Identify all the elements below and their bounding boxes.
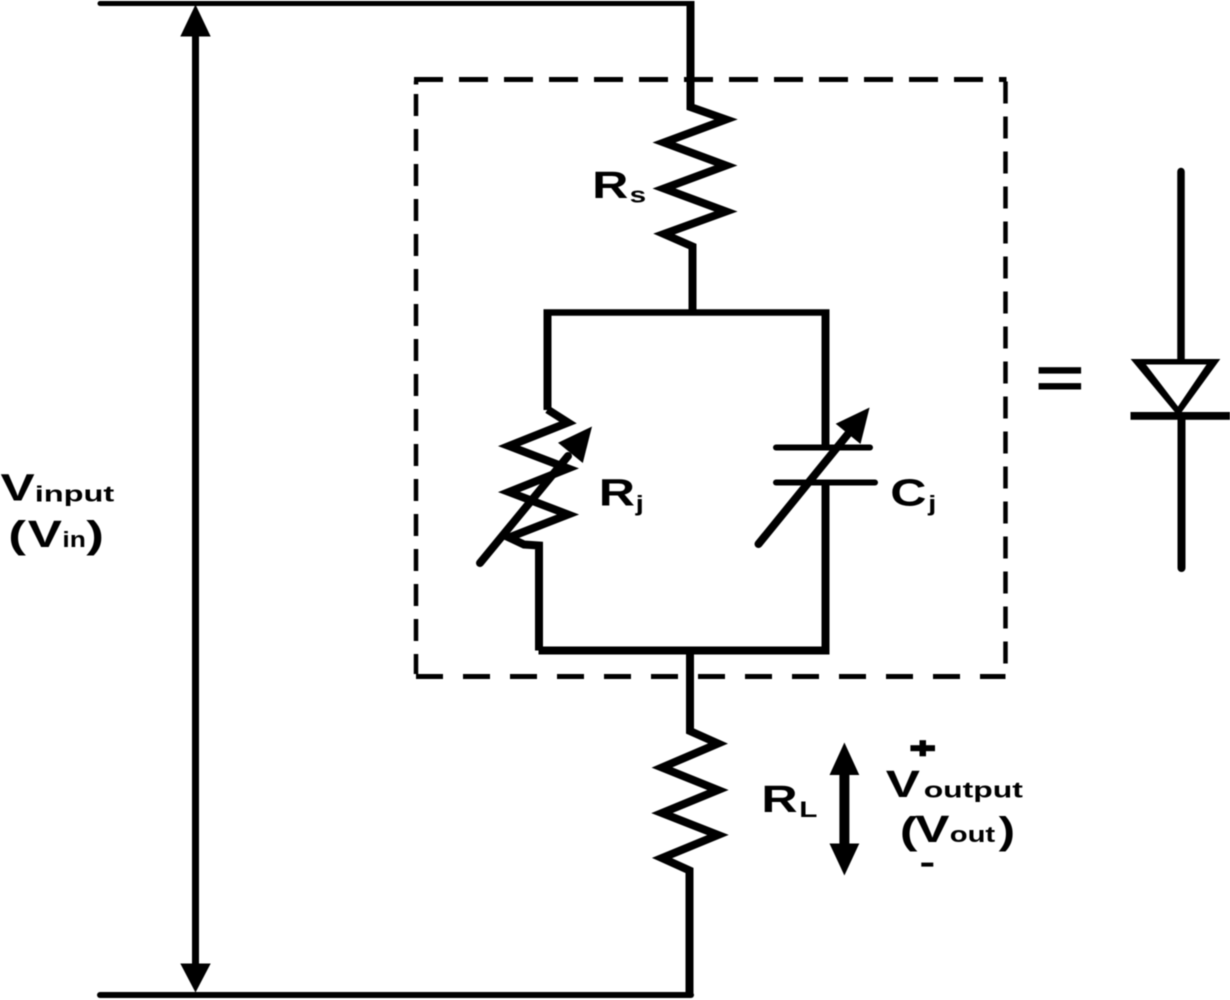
svg-text:input: input xyxy=(35,482,114,507)
svg-text:V: V xyxy=(28,512,62,555)
svg-text:): ) xyxy=(999,810,1015,852)
svg-text:s: s xyxy=(630,182,647,207)
svg-text:out: out xyxy=(950,824,996,848)
svg-text:V: V xyxy=(915,808,949,851)
svg-text:L: L xyxy=(799,797,817,822)
svg-text:C: C xyxy=(890,472,926,514)
svg-text:(: ( xyxy=(8,513,26,556)
svg-text:R: R xyxy=(599,472,635,514)
svg-text:): ) xyxy=(86,513,104,556)
svg-text:V: V xyxy=(1,466,35,509)
svg-text:V: V xyxy=(886,762,920,805)
svg-text:j: j xyxy=(634,491,643,516)
svg-text:output: output xyxy=(924,777,1023,802)
svg-text:in: in xyxy=(62,528,85,552)
svg-text:R: R xyxy=(592,165,628,207)
svg-text:j: j xyxy=(927,491,936,516)
svg-text:R: R xyxy=(761,779,797,821)
